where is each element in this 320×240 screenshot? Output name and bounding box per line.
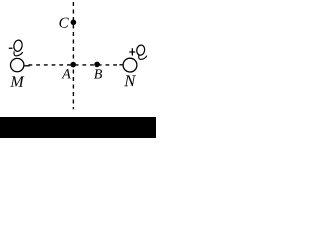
label M (10, 76, 24, 86)
node A dot (70, 62, 76, 68)
charge N: +Q circle (123, 58, 137, 72)
charge M: -Q circle (11, 58, 24, 71)
black bar at bottom (0, 117, 156, 138)
label +Q : Q glyph (136, 44, 147, 59)
label C (59, 18, 68, 28)
node C dot (71, 20, 77, 26)
wire: solid tick from M circle to dashed line (24, 65, 30, 67)
label +Q : plus sign (129, 48, 135, 55)
electrostatics figure: two charges -Q (M) and +Q (N) with points A, B, C (0, 0, 156, 138)
wire: vertical dashed axis (72, 2, 74, 109)
label N (124, 75, 136, 86)
node B dot (94, 62, 100, 68)
label A (61, 69, 70, 78)
wire: horizontal dashed axis (29, 64, 119, 66)
label B (94, 69, 102, 78)
label -Q : minus sign (9, 48, 13, 49)
label -Q : Q glyph (13, 39, 23, 55)
wire: solid tick from dashed line to N circle (119, 64, 123, 66)
